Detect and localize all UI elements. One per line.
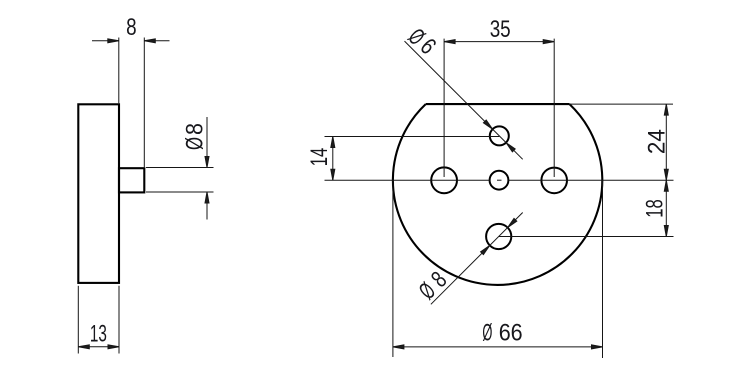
dimension boss diameter 8: arrow top [205, 157, 209, 168]
leader d6: diagonal line through top hole [405, 41, 523, 159]
dimension 18: bottom extension line from bottom hole [499, 236, 674, 238]
dimension boss diameter 8: arrow bottom [205, 192, 209, 203]
leader d8: diagonal line through bottom hole [431, 213, 523, 305]
dimension d66: arrow left [393, 345, 404, 349]
horizontal centerline through holes [325, 179, 490, 181]
dimension 13: extension line left [77, 286, 79, 354]
dimension boss diameter 8: extension line top [146, 167, 214, 169]
leader d6: arrow upper [483, 120, 492, 129]
dimension d66: arrow right [592, 345, 603, 349]
svg-text:24: 24 [643, 129, 670, 154]
dimension 8: arrow right [144, 39, 155, 43]
leader d6: arrow lower [506, 143, 515, 152]
dimension 13: extension line right [118, 286, 120, 354]
dimension 24: top extension line (flat top extended) [570, 103, 674, 105]
svg-text:8: 8 [182, 123, 209, 135]
leader d8: arrow upper [508, 218, 517, 227]
dimensions 24/18: vertical dim line [665, 104, 667, 236]
dimension 35: arrow right [543, 40, 554, 44]
plate front view: circular outline arc [393, 104, 602, 285]
svg-text:14: 14 [306, 148, 333, 167]
dimension d66: dim line [393, 346, 603, 348]
dimension boss diameter 8: extension line bottom [146, 191, 214, 193]
svg-text:18: 18 [642, 199, 669, 218]
dimension 8: dim line left tail [92, 40, 119, 42]
dimension 24: arrow top [664, 104, 668, 115]
boss stub side view [119, 168, 144, 192]
dimension 35: arrow left [444, 40, 455, 44]
svg-text:Ø: Ø [482, 320, 492, 347]
dimension 13: arrow left [78, 345, 89, 349]
dimension 35: dim line [444, 41, 554, 43]
dimension boss diameter 8: dim line upper segment [206, 117, 208, 168]
dimension boss diameter 8: dim line lower segment [206, 192, 208, 220]
dimension 35: extension line right into right hole [553, 39, 555, 177]
dimension 8: extension line right [143, 38, 145, 168]
svg-text:66: 66 [499, 320, 523, 347]
dimension 8: dim line right tail [144, 40, 169, 42]
hole left (d8) [431, 167, 457, 193]
dimension d66: extension line right [602, 180, 604, 358]
leader d8: arrow lower [481, 245, 490, 254]
dimension 8: arrow left [108, 39, 119, 43]
hole center (d6) [490, 171, 509, 190]
svg-text:8: 8 [126, 14, 137, 41]
dimension 14: arrow bottom [331, 169, 335, 180]
plate side view outline [78, 104, 119, 283]
svg-text:Ø: Ø [182, 137, 209, 150]
hole bottom (d8) [486, 224, 511, 249]
svg-text:35: 35 [490, 16, 511, 43]
hole right (d8) [541, 168, 567, 194]
svg-text:13: 13 [90, 321, 107, 348]
dimension 35: extension line left into left hole [443, 39, 445, 177]
dimension 14: top extension line at top hole center [325, 136, 500, 138]
dimension 13: dim line [78, 346, 119, 348]
dimension 8: extension line left [118, 38, 120, 104]
dimension 18: arrow bottom [664, 226, 668, 237]
dimension 14: arrow top [331, 137, 335, 148]
dimension 18: arrow top [664, 180, 668, 191]
hole top (d6) [490, 126, 509, 145]
dimension 13: arrow right [108, 345, 119, 349]
dimension 14: dim line [332, 137, 334, 181]
dimension 24: arrow bottom [664, 169, 668, 180]
dimension d66: extension line left [392, 180, 394, 357]
plate front view: flat top edge [426, 103, 570, 105]
